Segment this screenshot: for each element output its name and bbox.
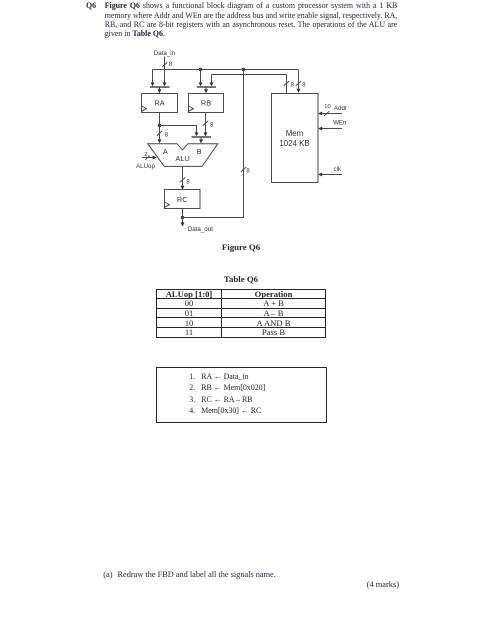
part (a) text [103, 570, 276, 579]
svg-text:1024 KB: 1024 KB [279, 139, 309, 148]
svg-text:Mem: Mem [286, 129, 304, 138]
wire ALUop into ALU [142, 156, 157, 160]
register RA [142, 94, 178, 113]
junction dot RA output [158, 124, 161, 127]
wire Addr into Mem [318, 112, 342, 116]
wire top bus horizontal [153, 69, 299, 71]
junction dot top bus feedback [242, 68, 245, 71]
marks [340, 580, 399, 589]
node WEn label [333, 119, 347, 126]
wire RA branch to B mux [160, 126, 199, 137]
wire top bus left drop to RA mux [152, 70, 154, 83]
arrowhead Data_in into RA mux [163, 82, 167, 86]
wire clk into Mem [318, 173, 342, 177]
svg-text:ALU: ALU [175, 154, 189, 163]
svg-text:B: B [197, 147, 202, 156]
svg-text:RC: RC [177, 195, 188, 204]
bus width slash 8 on Mem read data [284, 81, 295, 89]
list item 3 [189, 395, 252, 404]
arrowhead write data into Mem [297, 89, 301, 93]
svg-text:Data_in: Data_in [154, 50, 176, 57]
svg-text:8: 8 [291, 83, 295, 89]
caption Table Q6 [191, 274, 291, 284]
junction dot RC output [181, 216, 184, 219]
bus width slash 10 on Addr [324, 104, 331, 116]
svg-text:RA: RA [155, 99, 165, 108]
svg-text:Data_out: Data_out [188, 226, 213, 233]
bus width slash 8 on Mem write data [296, 81, 306, 89]
instruction list box [156, 367, 327, 423]
bus width slash 8 on ALU output [180, 178, 191, 186]
bus width slash 8 on RA to ALU [157, 131, 169, 139]
register RB [189, 94, 224, 113]
bus width slash 8 on feedback [241, 167, 251, 174]
clock triangle RB [189, 106, 194, 111]
list item 4 [189, 406, 261, 415]
svg-text:A: A [163, 147, 168, 156]
wire top bus right drop into Mem [298, 70, 300, 89]
svg-text:8: 8 [186, 179, 190, 185]
list item 2 [189, 383, 265, 392]
wire RA output down to ALU A [159, 113, 161, 140]
register RC [165, 190, 201, 209]
memory Mem 1024 KB [272, 94, 319, 183]
clock triangle RC [165, 202, 170, 207]
svg-text:WEn: WEn [333, 119, 347, 126]
bus width slash 8 on Data_in [162, 62, 173, 68]
node ALUop label [136, 163, 155, 170]
svg-text:8: 8 [210, 123, 214, 129]
svg-text:ALUop: ALUop [136, 163, 155, 170]
list item 1 [189, 372, 248, 381]
wire B mux bar to ALU [199, 137, 203, 143]
svg-text:8: 8 [169, 62, 173, 68]
question paragraph [105, 1, 398, 38]
svg-text:10: 10 [324, 104, 330, 110]
node Data_in label [154, 50, 176, 57]
svg-text:8: 8 [246, 169, 250, 175]
arrowhead top bus into RA mux [151, 82, 155, 86]
svg-text:Addr: Addr [334, 105, 347, 112]
table Q6 [156, 289, 326, 338]
svg-text:8: 8 [302, 83, 306, 89]
svg-text:8: 8 [165, 133, 169, 139]
wire second bus left drop to RB mux [211, 75, 213, 83]
svg-text:clk: clk [334, 166, 342, 173]
node clk label [334, 166, 342, 173]
wire Data_in vertical [164, 57, 166, 83]
arrowhead second bus into RB mux [210, 82, 214, 86]
arrowhead RA into ALU A [158, 139, 162, 143]
wire RA mux bar to RA [158, 87, 162, 93]
wire RC output down [181, 209, 185, 227]
question number Q6 [86, 1, 96, 10]
wire Mem read data drop [286, 75, 288, 94]
op-amp style trapezoid ALU [148, 144, 218, 167]
wire WEn into Mem [318, 127, 342, 131]
RB input mux bar [197, 86, 216, 88]
wire feedback from RC output up to top bus [183, 70, 244, 218]
svg-text:2: 2 [144, 152, 147, 158]
junction dot top bus above RB [199, 68, 202, 71]
bus width slash 8 on RB output [203, 121, 214, 129]
node Data_out label [188, 226, 213, 233]
arrowhead top bus into RB mux [199, 82, 203, 86]
caption Figure Q6 [191, 242, 291, 252]
wire top bus drop to RB mux [200, 70, 202, 83]
RA input mux bar [150, 86, 170, 88]
ALU B input mux bar [192, 136, 212, 138]
wire second bus horizontal (Mem read data) [212, 74, 287, 76]
wire ALU output to RC [181, 166, 185, 189]
bus width slash 2 on ALUop [144, 152, 149, 160]
wire RB output down to B mux [204, 113, 208, 137]
wire RB mux bar to RB [204, 87, 208, 93]
svg-text:RB: RB [201, 99, 211, 108]
node Addr label [334, 105, 347, 112]
clock triangle RA [142, 106, 147, 111]
